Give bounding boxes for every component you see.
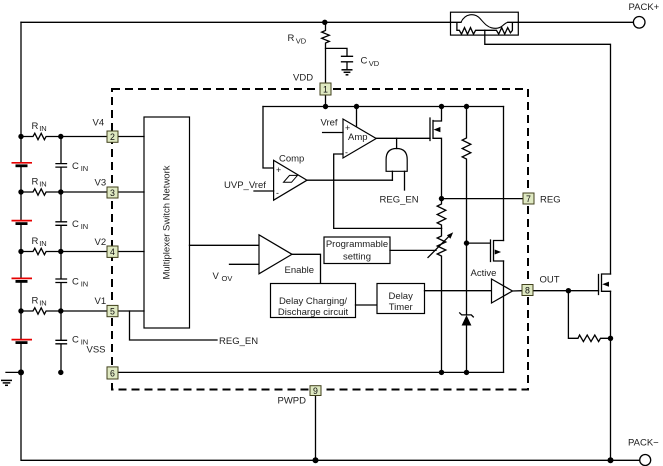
resistor R2 (reg divider) <box>437 199 446 229</box>
svg-text:V3: V3 <box>95 178 107 189</box>
wire enable output <box>292 254 321 283</box>
svg-text:REG: REG <box>540 195 561 206</box>
wire timer to active buffer <box>425 290 492 292</box>
op-amp Amp <box>343 119 376 158</box>
svg-text:R: R <box>32 177 39 188</box>
wire M2 source drop to VSS <box>503 261 505 372</box>
resistor RVD <box>288 22 330 83</box>
box programmable setting <box>324 237 390 264</box>
svg-text:VDD: VDD <box>293 73 313 84</box>
terminal PACK- <box>628 438 659 466</box>
node PWPD bottom junction <box>313 457 319 463</box>
enable buffer <box>259 235 314 276</box>
svg-text:IN: IN <box>81 164 89 173</box>
svg-text:9: 9 <box>313 386 318 396</box>
resistor RIN (V4 row) <box>21 133 107 139</box>
svg-text:IN: IN <box>39 180 47 189</box>
svg-text:OUT: OUT <box>540 274 560 285</box>
pin 5 V1 <box>107 305 118 316</box>
node top rail / RVD <box>322 20 327 25</box>
svg-text:UVP_Vref: UVP_Vref <box>224 180 266 191</box>
svg-text:Delay Charging/: Delay Charging/ <box>279 296 347 307</box>
thermal fuse F1 <box>451 12 519 35</box>
box delay charging/discharge circuit <box>271 284 356 318</box>
transistor M2 (active pull) <box>467 240 504 262</box>
multiplexer switch network U1 <box>144 117 190 328</box>
svg-text:8: 8 <box>525 286 530 296</box>
AND gate (REG_EN) <box>386 138 407 190</box>
wire pin3 to mux <box>118 191 144 193</box>
svg-text:Amp: Amp <box>348 132 368 143</box>
wire pack- left drop and bottom rail <box>21 372 640 460</box>
node gate node <box>464 240 469 245</box>
capacitor CIN (V2-V1) <box>56 252 88 312</box>
terminal PACK+ <box>629 2 660 28</box>
svg-text:R: R <box>32 121 39 132</box>
svg-text:REG_EN: REG_EN <box>219 336 258 347</box>
wire vss stub to ground <box>6 371 21 373</box>
svg-text:6: 6 <box>110 369 115 379</box>
capacitor CIN (V4-V3) <box>56 137 88 193</box>
svg-text:Timer: Timer <box>389 302 413 313</box>
pin 9 PWPD <box>310 386 321 396</box>
pin 7 REG <box>523 193 534 204</box>
svg-text:VD: VD <box>296 37 307 46</box>
label RIN <box>32 296 47 308</box>
capacitor CVD <box>326 48 380 69</box>
wire M3 source to bottom rail <box>610 291 612 460</box>
wire amp feedback <box>334 154 442 228</box>
svg-text:1: 1 <box>323 85 328 95</box>
svg-text:V: V <box>213 271 220 282</box>
transistor M3 (discharge FET) <box>599 274 611 295</box>
wire pin5 to mux <box>118 310 144 312</box>
svg-text:REG_EN: REG_EN <box>380 194 419 205</box>
wire programmable to wiper <box>390 249 436 251</box>
wire pin4 to mux <box>118 251 144 253</box>
box delay timer <box>377 284 425 314</box>
svg-text:Comp: Comp <box>279 154 304 165</box>
svg-text:4: 4 <box>110 247 115 257</box>
svg-text:-: - <box>345 148 348 158</box>
input V_OV <box>213 264 260 283</box>
wire PWPD drop <box>315 396 317 461</box>
svg-text:V2: V2 <box>95 237 107 248</box>
svg-text:V4: V4 <box>93 118 105 129</box>
node REG junction <box>439 196 444 201</box>
svg-text:C: C <box>72 334 79 345</box>
svg-text:V1: V1 <box>95 296 107 307</box>
battery cell B1 <box>12 163 33 166</box>
net OUT <box>533 290 599 292</box>
ground (battery) <box>1 380 12 385</box>
node VSS junction dots <box>439 370 469 375</box>
svg-text:Active: Active <box>471 268 497 279</box>
svg-text:IN: IN <box>81 222 89 231</box>
wire buffer output to pin8 <box>513 290 523 292</box>
capacitor CIN (V3-V2) <box>56 192 88 252</box>
wire pin2 to mux <box>118 136 144 138</box>
node battery/RIN junctions <box>18 134 24 376</box>
pin 6 VSS <box>107 367 118 379</box>
net REG_EN (lower) <box>130 311 259 347</box>
svg-text:VD: VD <box>369 59 380 68</box>
svg-text:OV: OV <box>222 274 233 283</box>
potentiometer VR1 <box>428 228 453 372</box>
wire VSS net <box>118 371 504 373</box>
svg-text:-: - <box>276 188 279 198</box>
resistor RIN (V3 row) <box>21 189 107 195</box>
resistor R1 (vdd divider) <box>462 107 471 244</box>
comparator Comp <box>274 154 307 201</box>
capacitor CIN (V1-VSS) <box>56 311 88 372</box>
node R3 junctions <box>608 336 614 464</box>
battery cell B4 <box>12 340 33 343</box>
wire fuse heater tap <box>485 30 611 274</box>
svg-text:Multiplexer Switch Network: Multiplexer Switch Network <box>161 165 172 279</box>
label RIN <box>32 236 47 248</box>
svg-text:IN: IN <box>39 124 47 133</box>
svg-text:2: 2 <box>110 132 115 142</box>
battery cell B2 <box>12 221 33 224</box>
svg-text:3: 3 <box>110 188 115 198</box>
input Vref <box>321 117 344 132</box>
zener diode D1 <box>460 243 474 372</box>
wire top rail <box>21 21 451 23</box>
pin 8 OUT <box>522 285 533 296</box>
svg-text:5: 5 <box>110 307 115 317</box>
svg-text:C: C <box>361 56 368 67</box>
pin 3 V3 <box>107 187 118 198</box>
label RIN <box>32 121 47 133</box>
transistor M1 (regulator pass FET) <box>430 107 442 199</box>
pin 4 V2 <box>107 246 118 257</box>
svg-text:R: R <box>32 296 39 307</box>
svg-text:C: C <box>72 219 79 230</box>
wire internal VDD rail <box>263 106 504 108</box>
svg-text:7: 7 <box>526 194 531 204</box>
pin 1 VDD <box>320 83 331 95</box>
wire mux to enable buffer <box>190 244 260 246</box>
resistor RIN (V2 row) <box>21 248 107 254</box>
svg-text:Enable: Enable <box>285 265 315 276</box>
wire comp plus feed <box>263 107 274 169</box>
svg-text:PWPD: PWPD <box>278 396 307 407</box>
wire delay box to timer <box>356 304 378 306</box>
svg-text:VSS: VSS <box>87 345 106 356</box>
resistor RIN (V1 row) <box>21 308 107 314</box>
svg-text:IN: IN <box>39 239 47 248</box>
battery cell B3 <box>12 278 33 281</box>
svg-text:Delay: Delay <box>389 291 414 302</box>
net REG <box>442 198 524 200</box>
wire vdd right drop to M2 drain <box>503 107 505 241</box>
svg-text:+: + <box>276 165 281 175</box>
svg-text:C: C <box>72 161 79 172</box>
wire amp output to gate <box>376 137 430 139</box>
node OUT junction <box>566 288 571 293</box>
active buffer <box>471 268 513 303</box>
svg-text:Programmable: Programmable <box>326 239 388 250</box>
svg-text:IN: IN <box>39 299 47 308</box>
svg-text:PACK+: PACK+ <box>629 2 660 13</box>
label RIN <box>32 177 47 189</box>
node CIN junctions <box>58 134 63 375</box>
resistor R3 (gate-source) <box>568 291 610 342</box>
wire pin1 to internal vdd rail <box>325 95 327 107</box>
ground (CVD) <box>342 70 353 75</box>
svg-text:C: C <box>72 277 79 288</box>
input UVP_Vref <box>224 180 274 191</box>
svg-text:R: R <box>288 33 295 44</box>
svg-text:PACK−: PACK− <box>628 438 659 449</box>
pin 2 V4 <box>107 131 118 142</box>
svg-text:Vref: Vref <box>321 117 338 128</box>
wire fuse to PACK+ <box>518 21 633 23</box>
svg-text:setting: setting <box>343 252 371 263</box>
IC boundary dashed border <box>112 89 528 390</box>
wire comp output <box>307 179 392 181</box>
svg-text:IN: IN <box>81 280 89 289</box>
wire left battery stack column <box>20 22 22 372</box>
node vdd rail dots <box>323 104 469 109</box>
wire amp supply <box>356 107 358 127</box>
svg-text:Discharge circuit: Discharge circuit <box>278 307 349 318</box>
svg-text:R: R <box>32 236 39 247</box>
